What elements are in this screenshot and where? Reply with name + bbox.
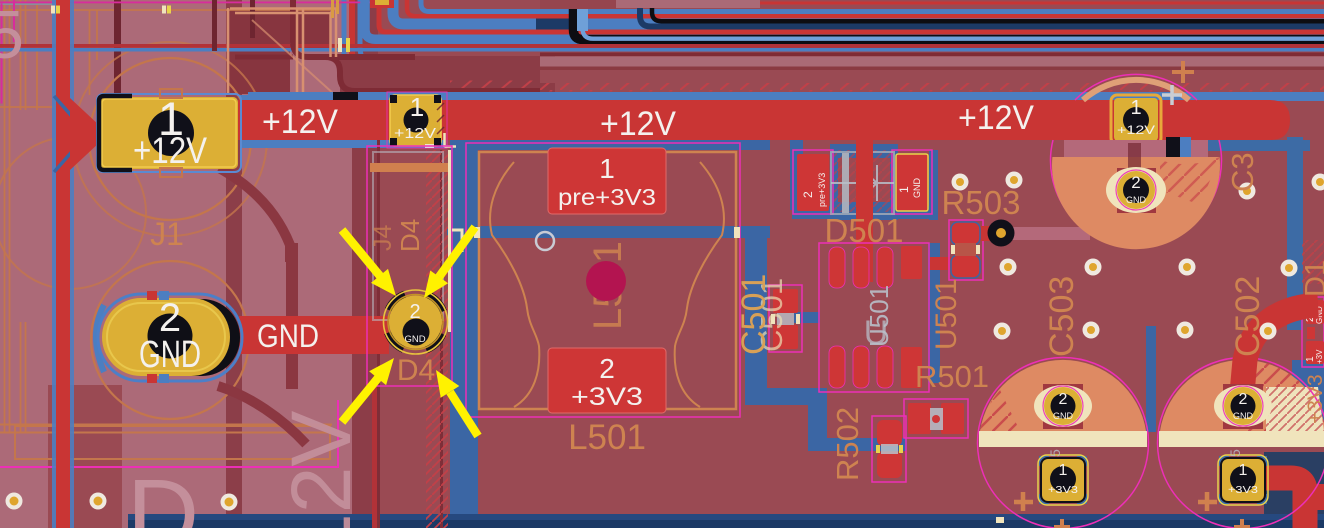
wire dark red staircase top-left: [235, 0, 540, 91]
wire dark red arc below J1 pin2: [218, 386, 306, 444]
dark red thin vertical line a: [377, 140, 380, 528]
svg-text:12V: 12V: [274, 411, 368, 528]
net text +3V3 vertical right edge: [1304, 374, 1324, 424]
wire dark red arc right of J1 pin1: [219, 168, 290, 262]
wire bundle red 3: [0, 44, 1324, 52]
svg-text:+3V3: +3V3: [1304, 374, 1324, 424]
connector J1 body overlay left column: [0, 0, 48, 528]
vias white with yellow centers: [6, 172, 1324, 511]
background strip above hatch right: [540, 70, 1324, 83]
wire bundle blue 1: [421, 0, 1324, 12]
wire red vertical to D501: [856, 140, 873, 282]
wire navy stub left of corner: [536, 19, 576, 30]
ref text C501 vertical: [735, 274, 773, 355]
wire blue arc left of J1 pin2: [96, 305, 104, 372]
ref text L501: [568, 418, 646, 457]
ref text R503: [942, 184, 1021, 221]
svg-text:2: 2: [599, 353, 615, 384]
svg-text:5: 5: [1047, 449, 1063, 457]
ref text U501 vertical orange: [930, 278, 963, 350]
wire dark vertical stubs top: [212, 0, 255, 51]
svg-text:R503: R503: [942, 184, 1021, 221]
svg-text:U501: U501: [864, 285, 894, 347]
capacitor C501: [769, 285, 802, 352]
L501 center dot: [586, 261, 626, 301]
wire red S-curve right edge to C502: [1241, 305, 1318, 404]
connector J1 pad area overlay: [48, 0, 122, 385]
svg-text:GND: GND: [1233, 411, 1254, 421]
wire blue L501 mid band: [447, 226, 770, 238]
fab salmon lines top-mid: [228, 8, 336, 95]
capacitor C502 plus marks: [1198, 492, 1250, 528]
light mauve band below bundle: [540, 0, 1324, 67]
wire red vertical left with blue edges: [52, 0, 74, 528]
wire dark red vertical mid: [286, 243, 298, 389]
ref text R502 vertical: [830, 407, 865, 481]
svg-text:J4: J4: [369, 225, 397, 252]
capacitor C3 top right: [1051, 61, 1222, 249]
wire bundle navy overlay: [640, 0, 1324, 27]
svg-text:2: 2: [1059, 391, 1068, 408]
capacitor C503 pad 2 GND: [1034, 384, 1092, 429]
wire blue stub C501 right: [794, 312, 820, 323]
courtyard line J1 bottom: [0, 400, 339, 468]
capacitor C502 body: [1158, 358, 1324, 528]
svg-text:+12V: +12V: [1117, 123, 1155, 137]
wire blue elbow to U501: [745, 388, 907, 451]
svg-text:+12V: +12V: [262, 103, 338, 141]
pad through-hole +12V small on bar: [387, 92, 456, 148]
wire blue L501 right bar: [745, 226, 767, 392]
svg-text:L501: L501: [568, 418, 646, 457]
L501 rotated ref text: [586, 241, 630, 330]
ic U501: [819, 243, 929, 392]
inductor L501 pad 1 pre+3V3: [548, 148, 666, 214]
connector J1 pad 1 +12V: [97, 89, 241, 177]
svg-text:1: 1: [599, 153, 615, 184]
ref text C3 vertical: [1225, 152, 1260, 192]
value text U501 vertical silver: [864, 285, 894, 347]
svg-text:C3: C3: [1225, 152, 1260, 192]
svg-text:C502: C502: [1229, 276, 1267, 357]
annotation arrow bottom-right: [436, 370, 478, 436]
zone hatch D4 column: [426, 150, 448, 528]
diode D1 pads right edge: [1302, 297, 1324, 367]
wire blue below +12V bar left: [240, 95, 445, 148]
dark red thin vertical line b: [440, 150, 443, 528]
top dark zone-clearance band: [340, 56, 555, 101]
svg-text:D4: D4: [397, 354, 435, 387]
diode D501: [793, 144, 932, 220]
ref text D1 vertical: [1300, 260, 1324, 297]
capacitor C503 body: [978, 358, 1149, 528]
connector J1 fab circle around pin 2: [91, 261, 249, 419]
courtyard line left edge: [1, 0, 16, 104]
annotation arrow top-right: [424, 227, 475, 298]
wire blue-red trio corner near J1: [344, 0, 447, 84]
value text C501 vertical cream: [754, 278, 789, 352]
zone blue L501 top band: [478, 140, 770, 150]
wire blue under D501: [792, 206, 934, 219]
capacitor C502 pad 2 GND: [1214, 384, 1272, 429]
connector J1 body overlay right column: [242, 0, 352, 528]
connector J1 body overlay mid column: [122, 0, 226, 528]
connector J1 fab vertical lines: [0, 0, 336, 433]
dark zone gap column 2: [352, 0, 378, 528]
inductor L501 fab outline: [479, 152, 736, 409]
zone blue D1 right edge: [1292, 360, 1324, 432]
zone blue bottom band: [128, 514, 1324, 528]
wire blue vertical right edge: [1287, 137, 1303, 330]
dark navy clearance right of C502 pin1: [1264, 452, 1324, 514]
dark zone gap column 1: [226, 0, 242, 528]
dark vertical bar left: [114, 0, 121, 95]
svg-text:+3V: +3V: [1315, 349, 1324, 364]
zone hatch boundary strip: [450, 81, 1324, 92]
svg-text:+3V3: +3V3: [1048, 485, 1079, 496]
svg-text:pre+3V3: pre+3V3: [558, 184, 656, 210]
gray line top-left: [0, 3, 63, 6]
dark copper block top-left A: [230, 10, 290, 94]
svg-text:D4: D4: [395, 219, 425, 252]
svg-text:1: 1: [1059, 462, 1068, 479]
resistor R501: [904, 399, 968, 438]
svg-text:5: 5: [0, 0, 24, 73]
dark line below bundle: [540, 53, 1324, 71]
inductor L501 pad 2 +3V3: [548, 348, 666, 413]
svg-text:U501: U501: [930, 278, 963, 350]
net label +12V on bar mid: [600, 105, 676, 143]
svg-text:GND: GND: [912, 178, 922, 199]
zone blue L501 left column: [450, 140, 478, 528]
svg-text:+12V: +12V: [600, 105, 676, 143]
svg-text:D1: D1: [1300, 260, 1324, 297]
net label +12V on bar right: [958, 99, 1034, 137]
svg-text:D501: D501: [825, 212, 904, 249]
big pink net text 12V vertical: [274, 411, 368, 528]
wire red from C502 pin1 to right edge: [1264, 478, 1324, 528]
ref text C503 vertical: [1043, 276, 1081, 357]
wire blue below +12V bar right: [1157, 140, 1310, 151]
diode D4 body column: [367, 146, 462, 386]
svg-text:1: 1: [410, 92, 424, 122]
ref text J5 partial: [0, 0, 24, 73]
svg-text:pre+3V3: pre+3V3: [817, 173, 827, 207]
zone hatch right edge: [1302, 240, 1324, 284]
svg-text:2: 2: [801, 191, 815, 198]
orange stub lines top: [331, 0, 339, 18]
wire blue right of U501: [928, 150, 940, 383]
wire bundle red 2: [379, 0, 1324, 32]
svg-text:GND: GND: [1053, 411, 1074, 421]
ref text J1: [150, 216, 184, 252]
pad top edge gold: [370, 0, 394, 8]
svg-text:2: 2: [409, 301, 420, 323]
svg-text:+12V: +12V: [394, 125, 436, 142]
wire black channel with light blue: [540, 0, 1324, 40]
wire red vertical below D4: [372, 380, 377, 528]
L501 silk circle mark: [536, 232, 554, 250]
connector J5 fab circle partial: [0, 137, 146, 289]
connector J1 fab circle around pin 1: [73, 42, 267, 236]
wire bundle red 1: [407, 0, 1324, 16]
svg-text:GND: GND: [404, 334, 425, 345]
svg-text:2: 2: [1131, 173, 1140, 192]
annotation arrow bottom-left: [342, 358, 394, 422]
resistor R503 footprint: [930, 220, 1090, 281]
svg-text:GND: GND: [1126, 195, 1147, 205]
svg-text:R502: R502: [830, 407, 865, 481]
ref text D4 horizontal: [397, 354, 435, 387]
L501 mid band cream ticks: [474, 227, 740, 238]
capacitor C503 plus marks: [1014, 492, 1070, 528]
ref text D4 vertical pair: [369, 219, 425, 252]
connector J1 fab bottom lines: [0, 425, 332, 460]
connector J1 pad 2 GND: [98, 291, 242, 383]
svg-text:+12V: +12V: [958, 99, 1034, 137]
net label +12V on bar left: [262, 103, 338, 141]
wire GND trace J1 pin2 to D4: [239, 316, 389, 354]
svg-text:+12V: +12V: [133, 130, 207, 171]
wire bundle blue 2: [393, 0, 1324, 24]
svg-text:C501: C501: [735, 274, 773, 355]
wire +12V main bar: [238, 100, 1290, 140]
net label GND on trace: [257, 318, 319, 354]
svg-text:+3V3: +3V3: [571, 383, 643, 411]
wire bundle black overlay: [652, 0, 1324, 21]
wire blue above +12V bar: [248, 92, 1324, 101]
svg-text:C503: C503: [1043, 276, 1081, 357]
svg-text:GND: GND: [257, 318, 319, 354]
pad through-hole +12V on bar right (C3 pin1): [1111, 95, 1161, 144]
svg-text:+3V3: +3V3: [1228, 485, 1259, 496]
fab tick crossings top: [51, 6, 171, 14]
wire bundle blue 3: [365, 0, 1324, 39]
wire blue between caps: [1146, 326, 1156, 432]
inductor L501 courtyard: [466, 143, 740, 417]
svg-text:R501: R501: [915, 359, 989, 394]
big pink net text GND partial D: [127, 459, 199, 528]
dark copper block top-left B: [296, 10, 330, 50]
svg-text:1: 1: [1130, 97, 1141, 119]
svg-text:1: 1: [897, 186, 911, 193]
svg-text:2: 2: [1239, 391, 1248, 408]
wire top thin red: [694, 0, 1324, 3]
wire blue vertical to D501 pad: [790, 140, 803, 210]
resistor R502: [872, 416, 906, 482]
annotation arrow top-left: [342, 230, 396, 296]
ref text C502 vertical: [1229, 276, 1267, 357]
ref text R501: [915, 359, 989, 394]
capacitor C502 pad 1 +3V3: [1218, 449, 1268, 505]
svg-text:D: D: [127, 459, 199, 528]
svg-text:1: 1: [1239, 462, 1248, 479]
svg-text:J1: J1: [150, 216, 184, 252]
cream ticks on band: [338, 38, 350, 52]
courtyard line top edge: [0, 2, 392, 4]
capacitor C503 pad 1 +3V3: [1038, 449, 1088, 505]
wire red kink into J1 pin1: [54, 96, 100, 172]
svg-text:GND: GND: [139, 334, 201, 376]
ref text D501: [825, 212, 904, 249]
diode D4 pad 2 GND: [377, 283, 455, 361]
svg-text:5: 5: [1227, 449, 1243, 457]
